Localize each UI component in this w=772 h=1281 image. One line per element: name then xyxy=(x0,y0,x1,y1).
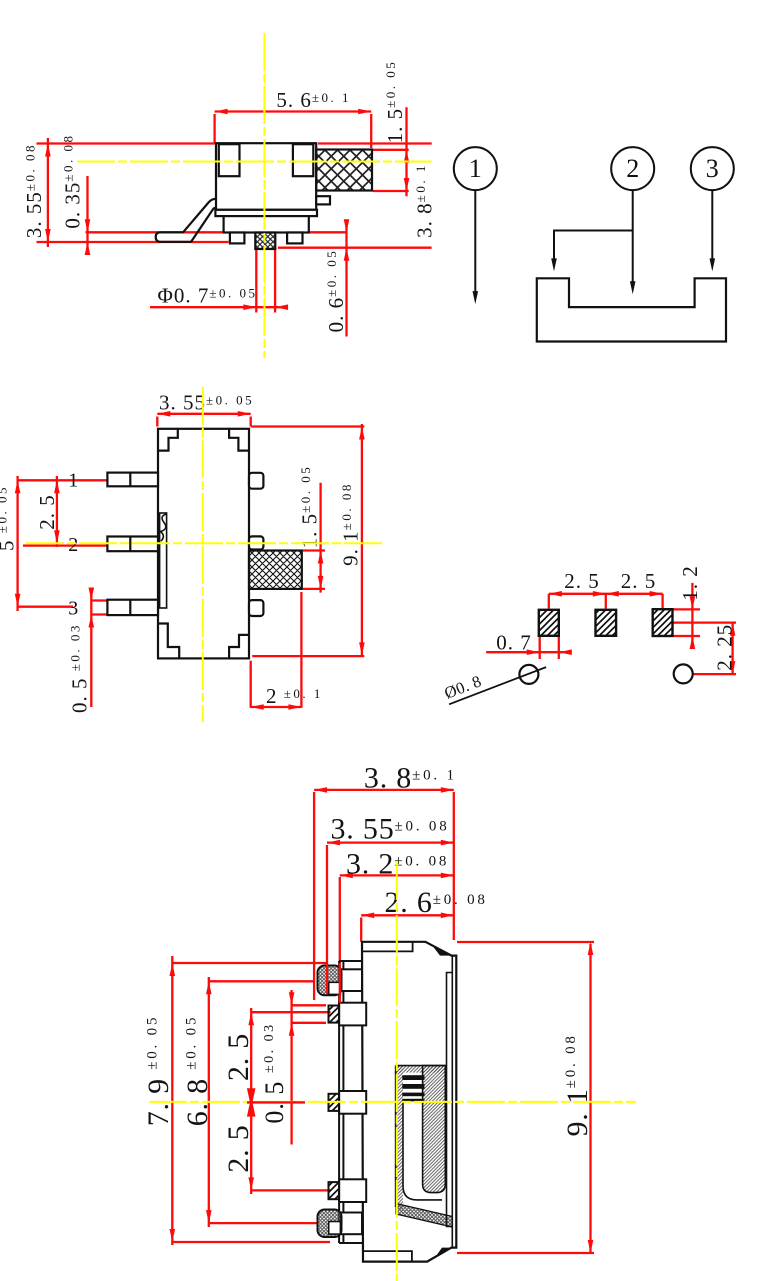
svg-text:2. 5: 2. 5 xyxy=(222,1033,255,1081)
dim line 3.2 view4 xyxy=(340,874,454,876)
slider bar hatched xyxy=(423,1066,446,1193)
dim 0.7 xyxy=(486,651,563,653)
red extension overlay over bump xyxy=(327,963,340,1003)
dim 9.1 view4 xyxy=(589,944,591,1253)
chamfer wedge top xyxy=(433,947,452,956)
knob top view hatched xyxy=(249,551,302,589)
knob hatched (side) xyxy=(316,150,372,191)
svg-text:2. 5: 2. 5 xyxy=(621,569,657,593)
right tab 3 xyxy=(249,600,263,616)
corner step bottom-right xyxy=(229,635,249,659)
centerline horizontal view2 xyxy=(26,542,384,544)
centerline vertical view2 xyxy=(202,387,204,722)
centerline vertical view4 xyxy=(396,862,398,1281)
dim 6.8 view4 xyxy=(208,977,210,1227)
terminal profile U-shape xyxy=(537,278,726,341)
svg-text:2. 5: 2. 5 xyxy=(564,569,600,593)
svg-text:2. 5: 2. 5 xyxy=(35,494,59,530)
callout circle 1 xyxy=(454,147,497,190)
body top-right notch xyxy=(293,144,313,176)
pin C xyxy=(339,1179,366,1202)
knurl bars xyxy=(402,1075,424,1101)
slider cavity hatched bands xyxy=(396,1066,446,1073)
pin A xyxy=(339,1003,366,1026)
svg-text:1: 1 xyxy=(68,470,78,492)
body outline side view xyxy=(362,942,456,1262)
dim 9.1 view2 xyxy=(361,424,363,657)
svg-text:3: 3 xyxy=(706,154,719,183)
corner step bottom-left xyxy=(158,624,179,659)
dim line 5.6 xyxy=(215,110,372,112)
pin 2 xyxy=(107,537,158,552)
pin 1 xyxy=(107,473,158,487)
ref line y232 xyxy=(86,231,348,233)
ref line y242 xyxy=(37,241,229,243)
svg-text:2. 25: 2. 25 xyxy=(712,624,736,671)
bottom recess line xyxy=(362,1251,412,1262)
flange band xyxy=(215,210,317,216)
base block xyxy=(224,216,309,232)
pin B xyxy=(339,1091,366,1114)
right tab 2 xyxy=(249,536,263,549)
cavity bottom boundary xyxy=(403,1102,442,1200)
view4 dimension arrowheads xyxy=(170,787,594,1253)
leader line 1 xyxy=(474,190,476,294)
svg-text:1. 2: 1. 2 xyxy=(678,565,702,601)
bent lever terminal xyxy=(161,199,217,233)
inner contact strip xyxy=(160,513,167,608)
dim 2 bottom view2 xyxy=(250,661,252,708)
svg-text:1: 1 xyxy=(469,154,482,183)
view1 dimension arrowheads xyxy=(45,109,409,310)
extension lines top view4 xyxy=(326,845,328,963)
hole left xyxy=(519,665,538,684)
dim line 2.5 2.5 pads xyxy=(549,593,663,595)
body outline top view xyxy=(158,429,249,659)
pin 3 xyxy=(107,600,158,615)
left wall band xyxy=(339,961,362,1243)
leader line phi0.8 xyxy=(449,667,546,704)
ref line top y143.5 xyxy=(37,142,216,144)
pad 1 hatched xyxy=(539,610,559,636)
dim line 3.8 view4 xyxy=(314,789,454,791)
top recess line xyxy=(362,942,413,952)
right tab 1 xyxy=(249,473,263,489)
dim 2.5 upper view4 xyxy=(250,1008,252,1194)
dim line 1.5 right xyxy=(405,107,407,196)
land pattern red dimension lines xyxy=(486,583,736,674)
dim phi0.7 xyxy=(255,248,257,313)
pad 2 hatched xyxy=(596,610,617,636)
view2 dimension arrowheads xyxy=(15,411,365,710)
dim 1.2 pad height xyxy=(691,583,693,645)
view4 red dimension lines xyxy=(172,790,594,1253)
left foot xyxy=(230,233,245,244)
hole right xyxy=(674,664,693,683)
centerline horizontal view4 xyxy=(149,1101,636,1103)
dim line 3.55 view4 xyxy=(327,841,454,843)
leader line 2 xyxy=(632,190,634,284)
view2 red dimension lines xyxy=(18,414,365,708)
inner right wall lower line xyxy=(447,973,453,1227)
callout circle 3 xyxy=(691,147,734,190)
dim 0.5 view4 xyxy=(290,990,292,1145)
right foot xyxy=(287,233,302,244)
view1 red dimension lines xyxy=(37,107,432,336)
svg-text:2. 5: 2. 5 xyxy=(222,1124,255,1172)
dim line 3.55 top view2 xyxy=(157,413,250,415)
terminal bump bottom xyxy=(341,1213,362,1235)
inner right wall double line xyxy=(451,956,453,1248)
svg-text:3: 3 xyxy=(68,598,78,620)
legend leader arrowheads xyxy=(473,258,716,304)
callout circle 2 xyxy=(611,147,654,190)
body top-left notch xyxy=(219,144,240,176)
corner step top-right xyxy=(229,429,249,451)
bottom hatched wedge xyxy=(396,1204,452,1228)
switch body side view xyxy=(216,143,316,210)
pad 3 hatched xyxy=(653,609,673,636)
dim 2.25 xyxy=(731,623,733,675)
dim line 0.6 xyxy=(345,224,347,337)
dim 5 left view2 xyxy=(16,476,18,611)
dim line 0.35 xyxy=(86,176,88,251)
terminal bump top xyxy=(341,969,362,991)
dim 1.5 knob view2 xyxy=(319,483,321,593)
dim 0.5 pin view2 xyxy=(90,592,92,707)
red junction overlay on centerline xyxy=(247,1089,305,1115)
dim 2.5 left view2 xyxy=(56,476,58,547)
svg-text:2: 2 xyxy=(68,534,78,556)
dim 7.9 view4 xyxy=(171,956,173,1245)
leader branch 2 xyxy=(554,231,633,262)
svg-text:2: 2 xyxy=(626,154,639,183)
centerline horizontal view1 xyxy=(77,161,432,163)
leader line 3 xyxy=(711,190,713,261)
dim line 3.55 left xyxy=(47,138,49,247)
center pin hatched xyxy=(255,233,275,250)
centerline vertical view1 xyxy=(263,33,265,358)
corner step top-left xyxy=(158,429,178,451)
right small tab xyxy=(316,196,330,204)
chamfer wedge bottom xyxy=(435,1248,452,1258)
dim line 2.6 view4 xyxy=(361,914,454,916)
svg-text:0. 7: 0. 7 xyxy=(496,631,532,655)
ref line pin bottom y247.7 xyxy=(278,247,432,249)
land pattern dimension arrowheads xyxy=(527,591,736,674)
